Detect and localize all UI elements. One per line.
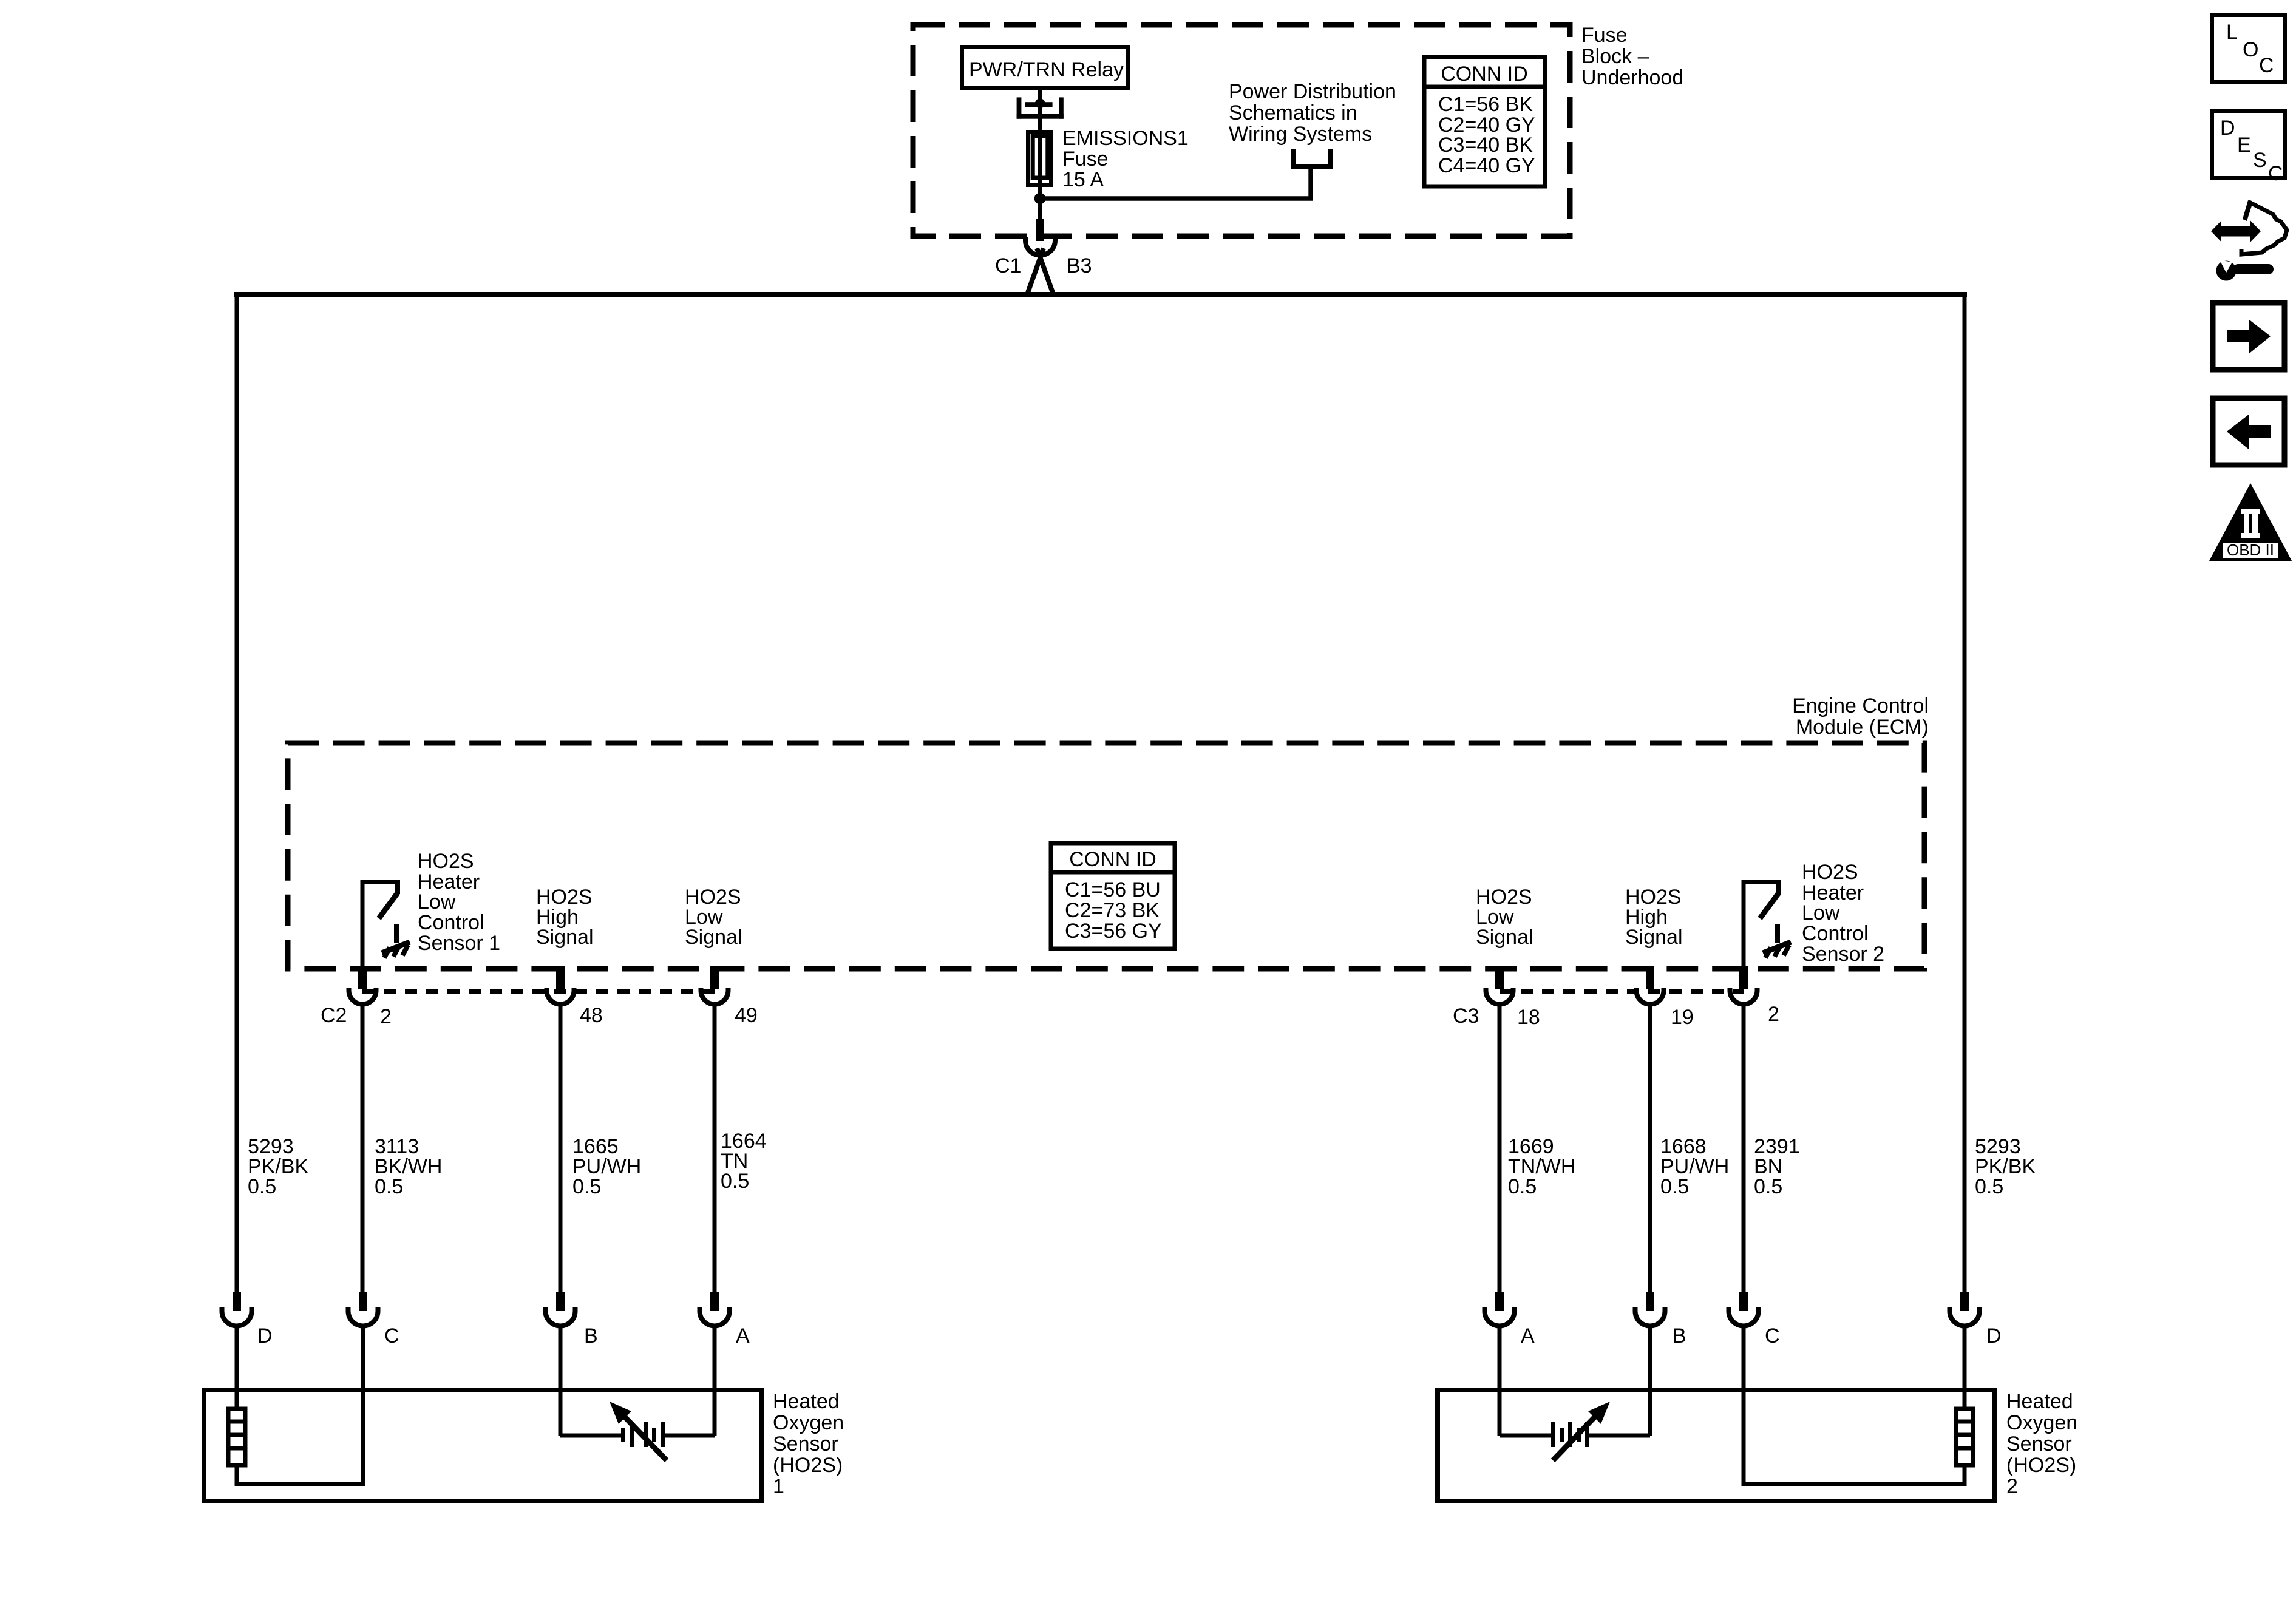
svg-text:CONN ID: CONN ID (1441, 63, 1528, 86)
svg-text:HO2S: HO2S (1802, 861, 1858, 884)
relay pin bracket (1017, 97, 1064, 118)
svg-text:0.5: 0.5 (1975, 1175, 2003, 1198)
svg-text:Sensor: Sensor (2006, 1432, 2072, 1456)
svg-text:Fuse: Fuse (1581, 24, 1628, 47)
label HO2S Heater Low Control Sensor 2 (1802, 861, 1884, 966)
svg-text:C1=56 BU: C1=56 BU (1065, 878, 1161, 901)
svg-text:Low: Low (418, 890, 456, 914)
svg-text:Power Distribution: Power Distribution (1229, 80, 1396, 103)
svg-text:Signal: Signal (1476, 926, 1533, 949)
connector C1/B3 pin bar (1038, 198, 1042, 220)
arrow HO2S2 (1553, 1402, 1610, 1460)
power distribution reference bracket (1293, 149, 1331, 166)
arrow HO2S1 (610, 1402, 667, 1460)
wire 2391 vertical (1742, 1005, 1746, 1292)
svg-text:0.5: 0.5 (572, 1175, 601, 1198)
icon wiring repair (2211, 200, 2287, 281)
pin 49 (701, 966, 729, 1005)
svg-text:49: 49 (735, 1004, 758, 1027)
svg-text:Control: Control (418, 911, 484, 934)
svg-text:S: S (2253, 149, 2267, 172)
svg-text:E: E (2237, 134, 2251, 157)
pin C2-2 (349, 966, 376, 1005)
svg-text:0.5: 0.5 (1660, 1175, 1689, 1198)
svg-text:Sensor 1: Sensor 1 (418, 932, 500, 955)
svg-text:0.5: 0.5 (248, 1175, 276, 1198)
svg-text:C2: C2 (321, 1004, 347, 1027)
svg-text:C: C (2268, 162, 2283, 185)
svg-text:C3=40 BK: C3=40 BK (1438, 134, 1533, 157)
svg-text:D: D (2220, 117, 2235, 140)
label Engine Control Module (ECM) (1792, 694, 1929, 739)
connector A (HO2S1) (700, 1292, 730, 1390)
fuse EMISSIONS1 15 A (1028, 132, 1051, 185)
svg-text:2: 2 (2006, 1475, 2018, 1498)
svg-text:L: L (2226, 21, 2238, 44)
svg-text:Signal: Signal (685, 926, 742, 949)
svg-text:Signal: Signal (536, 926, 594, 949)
HO2S heater low control driver sensor 2 (1742, 880, 1779, 966)
label Fuse Block - Underhood (1581, 24, 1683, 89)
pin 2 (C3) (1730, 966, 1758, 1005)
svg-text:48: 48 (580, 1004, 603, 1027)
svg-text:Engine Control: Engine Control (1792, 694, 1929, 717)
label Power Distribution Schematics in Wiring Systems (1229, 80, 1396, 146)
wire fuse to node (1038, 182, 1042, 222)
label wire 1665 PU/WH 0.5 (572, 1135, 641, 1198)
icon LOC (2212, 15, 2285, 83)
icon DESC (2212, 111, 2285, 186)
svg-text:Heated: Heated (773, 1390, 840, 1413)
icon OBD II (2209, 483, 2292, 561)
svg-text:0.5: 0.5 (1754, 1175, 1782, 1198)
wire node to power distribution bracket (1040, 166, 1311, 198)
wire 1664 vertical (713, 1005, 717, 1292)
svg-text:C3: C3 (1453, 1005, 1479, 1028)
svg-text:C3=56 GY: C3=56 GY (1065, 920, 1162, 943)
ECM CONN ID table (1051, 843, 1175, 949)
connector C (HO2S2) (1729, 1292, 1759, 1390)
variable sense element HO2S1 (560, 1390, 715, 1447)
svg-text:Underhood: Underhood (1581, 66, 1683, 89)
connector B (HO2S2) (1635, 1292, 1665, 1390)
svg-text:D: D (1986, 1324, 2002, 1347)
connector C1/B3 skirt (1037, 248, 1053, 293)
svg-text:B: B (1673, 1324, 1686, 1347)
svg-text:18: 18 (1517, 1006, 1540, 1029)
svg-text:Sensor: Sensor (773, 1432, 838, 1456)
svg-text:Sensor 2: Sensor 2 (1802, 943, 1884, 966)
svg-text:D: D (257, 1324, 273, 1347)
pin 19 (1637, 966, 1664, 1005)
svg-text:Signal: Signal (1625, 926, 1683, 949)
svg-text:A: A (736, 1324, 750, 1347)
svg-text:Heated: Heated (2006, 1390, 2073, 1413)
svg-text:Control: Control (1802, 922, 1869, 945)
fuse block underhood dashed box (913, 25, 1570, 236)
svg-text:EMISSIONS1: EMISSIONS1 (1062, 127, 1189, 150)
label EMISSIONS1 Fuse 15 A (1062, 127, 1189, 191)
label wire 5293 PK/BK 0.5 (right) (1975, 1135, 2036, 1198)
ECM dashed box (288, 743, 1924, 969)
connector D (HO2S1) (222, 1292, 252, 1390)
svg-text:A: A (1521, 1324, 1535, 1347)
svg-text:2: 2 (380, 1005, 392, 1028)
svg-text:C1=56 BK: C1=56 BK (1438, 93, 1533, 116)
HO2S 1 box (204, 1390, 762, 1501)
label wire 1664 TN 0.5 (721, 1130, 767, 1193)
HO2S heater low control driver sensor 1 (361, 880, 398, 966)
label Heated Oxygen Sensor (HO2S) 2 (2006, 1390, 2077, 1498)
wire 3113 vertical (361, 1005, 365, 1292)
svg-text:1: 1 (773, 1475, 784, 1498)
wire 1669 vertical (1498, 1005, 1502, 1292)
svg-text:15 A: 15 A (1062, 168, 1104, 191)
connector C (HO2S1) (348, 1292, 378, 1390)
ground sensor 2 driver (1763, 924, 1791, 958)
svg-text:Block –: Block – (1581, 45, 1649, 68)
svg-text:0.5: 0.5 (375, 1175, 403, 1198)
svg-text:Schematics in: Schematics in (1229, 101, 1357, 124)
node junction dot (1034, 193, 1046, 205)
wire 1668 vertical (1648, 1005, 1652, 1292)
svg-text:B3: B3 (1067, 254, 1092, 277)
heater element HO2S1 (228, 1390, 245, 1465)
svg-text:OBD II: OBD II (2227, 541, 2274, 559)
svg-text:Wiring Systems: Wiring Systems (1229, 123, 1372, 146)
connector C1/B3 cup (1025, 237, 1055, 256)
wire 5293 right vertical (1963, 292, 1967, 1292)
label HO2S High Signal (right) (1625, 886, 1683, 949)
bus wire horizontal (234, 292, 1967, 297)
svg-text:C: C (2259, 54, 2274, 77)
svg-text:19: 19 (1671, 1006, 1694, 1029)
svg-text:C: C (1765, 1324, 1780, 1347)
wire C to heater (HO2S2) (1744, 1390, 1965, 1484)
svg-text:C4=40 GY: C4=40 GY (1438, 154, 1535, 177)
connector B (HO2S1) (546, 1292, 576, 1390)
svg-text:(HO2S): (HO2S) (773, 1454, 843, 1477)
pin C3-18 (1486, 966, 1513, 1005)
svg-text:0.5: 0.5 (721, 1170, 749, 1193)
svg-text:PWR/TRN Relay: PWR/TRN Relay (969, 58, 1124, 81)
heater element HO2S2 (1956, 1390, 1973, 1465)
svg-text:2: 2 (1768, 1003, 1779, 1026)
label wire 3113 BK/WH 0.5 (375, 1135, 442, 1198)
wire heater to C (HO2S1) (237, 1390, 363, 1484)
wire relay to fuse (1038, 88, 1042, 132)
svg-text:Oxygen: Oxygen (773, 1411, 844, 1434)
svg-text:Low: Low (1802, 901, 1840, 924)
label wire 2391 BN 0.5 (1754, 1135, 1800, 1198)
HO2S 2 box (1438, 1390, 1994, 1501)
label Heated Oxygen Sensor (HO2S) 1 (773, 1390, 844, 1498)
label wire 5293 PK/BK 0.5 (left) (248, 1135, 308, 1198)
svg-text:Module (ECM): Module (ECM) (1796, 716, 1929, 739)
svg-text:0.5: 0.5 (1508, 1175, 1537, 1198)
svg-text:B: B (584, 1324, 598, 1347)
icon arrow left (2213, 398, 2284, 465)
icon arrow right (2213, 303, 2284, 370)
label HO2S High Signal (left) (536, 886, 594, 949)
wire 1665 vertical (559, 1005, 563, 1292)
svg-text:CONN ID: CONN ID (1069, 848, 1156, 871)
svg-text:Oxygen: Oxygen (2006, 1411, 2077, 1434)
CONN ID table (fuse block) (1424, 57, 1545, 186)
svg-text:C: C (384, 1324, 399, 1347)
wire 5293 left vertical (235, 292, 239, 1292)
label HO2S Low Signal (right) (1476, 886, 1533, 949)
label HO2S Heater Low Control Sensor 1 (418, 850, 500, 955)
ground sensor 1 driver (382, 924, 410, 958)
label HO2S Low Signal (left) (685, 886, 742, 949)
svg-text:Fuse: Fuse (1062, 147, 1109, 171)
ECM connector dotted line (right group) (1500, 989, 1744, 994)
label wire 1669 TN/WH 0.5 (1508, 1135, 1575, 1198)
connector A (HO2S2) (1485, 1292, 1515, 1390)
variable sense element HO2S2 (1500, 1390, 1650, 1447)
svg-text:HO2S: HO2S (418, 850, 474, 873)
pin 48 (547, 966, 574, 1005)
ECM connector dotted line (left group) (362, 989, 715, 994)
connector D (HO2S2) (1950, 1292, 1980, 1390)
svg-text:C1: C1 (995, 254, 1021, 277)
svg-text:C2=73 BK: C2=73 BK (1065, 899, 1160, 922)
label wire 1668 PU/WH 0.5 (1660, 1135, 1729, 1198)
svg-text:O: O (2243, 38, 2258, 61)
svg-text:(HO2S): (HO2S) (2006, 1454, 2076, 1477)
relay PWR/TRN Relay box (962, 47, 1129, 89)
